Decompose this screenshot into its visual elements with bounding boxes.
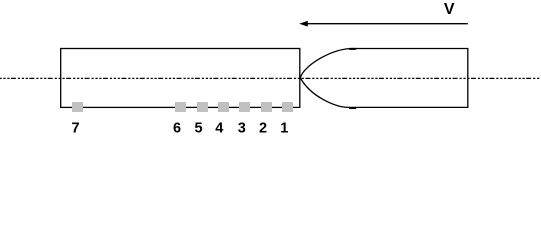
tube (coil block) rectangle bbox=[61, 49, 300, 108]
svg-text:1: 1 bbox=[280, 121, 288, 137]
svg-text:2: 2 bbox=[259, 121, 267, 137]
sensor square 5 bbox=[197, 102, 208, 112]
svg-text:5: 5 bbox=[195, 121, 203, 137]
thick overlap top junction bbox=[349, 48, 356, 50]
svg-text:V: V bbox=[444, 1, 455, 18]
velocity arrow shaft bbox=[307, 23, 468, 25]
svg-text:7: 7 bbox=[72, 121, 80, 137]
centerline (dash-dot axis of symmetry) bbox=[0, 77, 541, 79]
svg-text:3: 3 bbox=[238, 121, 246, 137]
sensor square 2 bbox=[261, 102, 272, 112]
sensor square 3 bbox=[239, 102, 250, 112]
projectile body with ogive nose bbox=[300, 49, 467, 108]
sensor square 6 bbox=[175, 102, 186, 112]
svg-text:4: 4 bbox=[215, 121, 223, 137]
sensor square 1 bbox=[282, 102, 293, 112]
sensor square 7 bbox=[72, 102, 83, 112]
velocity arrowhead bbox=[299, 21, 308, 27]
svg-text:6: 6 bbox=[173, 121, 181, 137]
thick overlap bottom junction bbox=[349, 107, 356, 109]
sensor square 4 bbox=[218, 102, 229, 112]
